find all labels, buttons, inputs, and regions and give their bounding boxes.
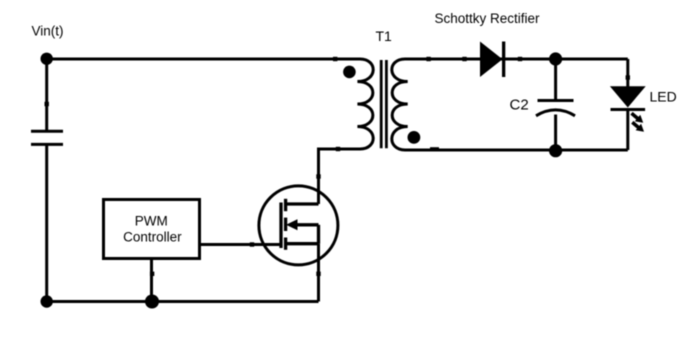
svg-text:T1: T1 (376, 28, 393, 44)
svg-text:LED: LED (650, 89, 677, 105)
svg-text:Controller: Controller (123, 229, 182, 244)
svg-text:PWM: PWM (135, 213, 168, 228)
svg-text:C2: C2 (510, 97, 529, 114)
svg-text:Schottky Rectifier: Schottky Rectifier (435, 11, 541, 26)
svg-text:Vin(t): Vin(t) (32, 23, 64, 38)
